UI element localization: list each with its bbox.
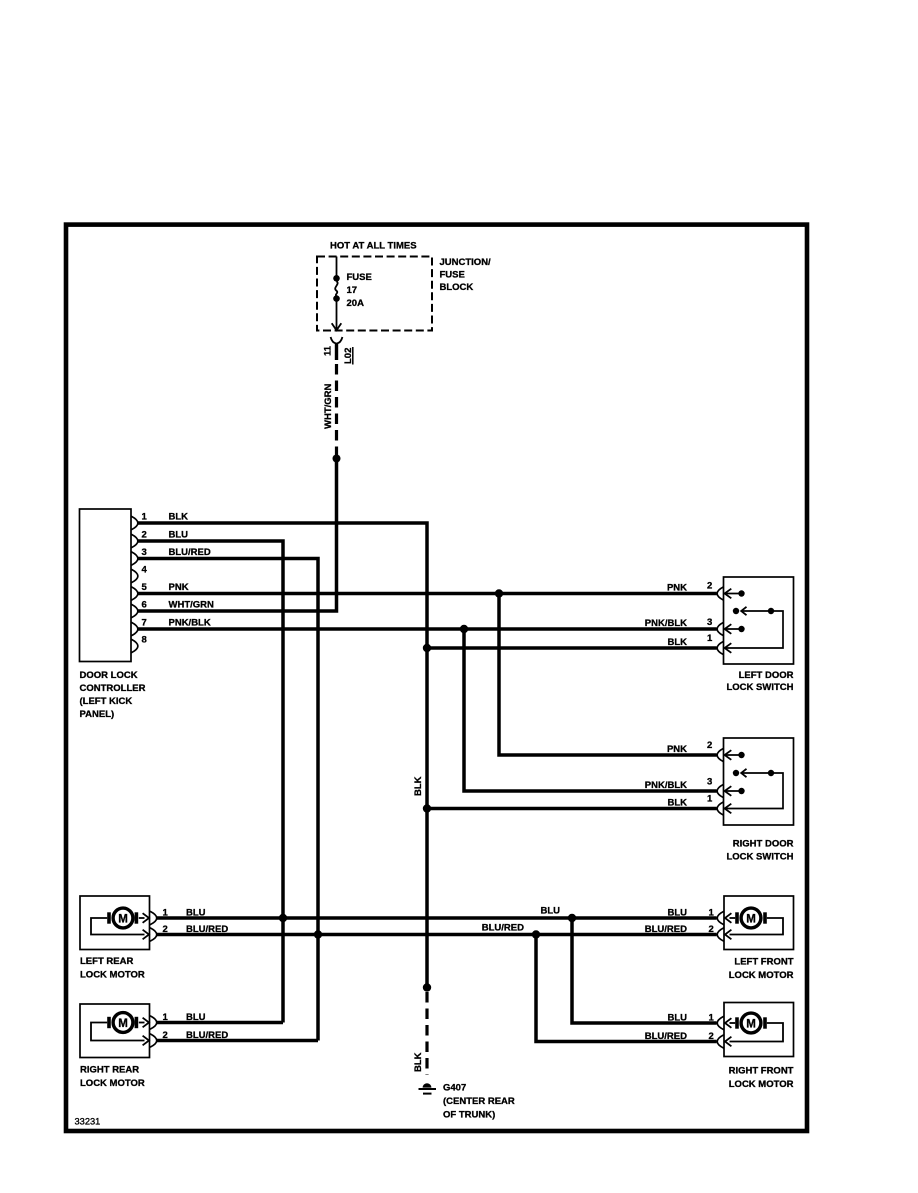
svg-text:1: 1: [709, 908, 715, 919]
junction dot BLU/RED front branch: [532, 930, 540, 938]
svg-text:4: 4: [142, 564, 148, 575]
svg-text:HOT AT ALL TIMES: HOT AT ALL TIMES: [330, 241, 417, 252]
svg-text:2: 2: [707, 740, 712, 751]
svg-text:RIGHT REAR: RIGHT REAR: [80, 1065, 139, 1076]
label G407 (CENTER REAR OF TRUNK): [443, 1083, 515, 1121]
S2 common path to pin 1: [725, 773, 783, 813]
svg-text:LOCK MOTOR: LOCK MOTOR: [80, 1078, 145, 1089]
wire PNK pin5: [137, 592, 717, 596]
svg-text:BLK: BLK: [413, 776, 424, 796]
wire BLU right rear motor pin1: [156, 1021, 283, 1025]
junction dot PNK branch: [495, 589, 503, 597]
svg-text:5: 5: [142, 582, 148, 593]
right rear lock motor M2: [80, 1004, 150, 1058]
svg-text:WHT/GRN: WHT/GRN: [169, 599, 215, 610]
svg-text:20A: 20A: [347, 298, 365, 309]
wire BLU/RED right rear motor pin2: [156, 1039, 318, 1043]
junction dot BLK to left door switch: [423, 644, 431, 652]
svg-text:BLU/RED: BLU/RED: [169, 547, 211, 558]
left rear lock motor M1: [80, 896, 150, 950]
svg-text:3: 3: [142, 547, 147, 558]
svg-text:CONTROLLER: CONTROLLER: [80, 683, 146, 694]
svg-text:2: 2: [142, 529, 147, 540]
wire PNK/BLK branch to right door switch: [464, 629, 717, 791]
junction dot BLK to right door switch: [423, 804, 431, 812]
svg-text:PNK/BLK: PNK/BLK: [645, 780, 687, 791]
svg-text:BLU: BLU: [667, 908, 687, 919]
label LEFT REAR LOCK MOTOR: [80, 956, 145, 981]
fuse F17 terminal dot top: [333, 275, 340, 282]
svg-text:BLU/RED: BLU/RED: [645, 924, 687, 935]
svg-text:LOCK MOTOR: LOCK MOTOR: [80, 970, 145, 981]
S2 pin 1 connector arc: [717, 802, 724, 816]
S1 pin 2 connector arc: [717, 587, 724, 601]
wire BLK dashed to ground: [425, 992, 428, 1075]
controller pin 3 connector arc: [131, 552, 138, 566]
svg-text:(CENTER REAR: (CENTER REAR: [443, 1096, 515, 1107]
svg-text:DOOR LOCK: DOOR LOCK: [80, 670, 138, 681]
svg-text:PNK: PNK: [667, 583, 687, 594]
svg-text:3: 3: [707, 777, 712, 788]
junction dot BLU front branch: [568, 914, 576, 922]
wire PNK branch to right door switch: [499, 594, 717, 756]
svg-text:2: 2: [163, 1030, 168, 1041]
svg-text:LOCK MOTOR: LOCK MOTOR: [729, 970, 794, 981]
svg-text:33231: 33231: [75, 1117, 101, 1127]
S1 common path to pin 1: [725, 611, 783, 653]
svg-text:BLU/RED: BLU/RED: [645, 1031, 687, 1042]
wire BLK to right door switch pin 1: [427, 807, 717, 811]
svg-text:PNK: PNK: [667, 744, 687, 755]
junction/fuse block dashed box: [317, 257, 432, 331]
svg-text:BLK: BLK: [413, 1052, 424, 1072]
door lock controller U1 box: [80, 509, 132, 662]
S1 pin 1 connector arc: [717, 641, 724, 655]
svg-text:PNK: PNK: [169, 582, 189, 593]
label LEFT DOOR LOCK SWITCH: [726, 670, 793, 693]
svg-text:BLOCK: BLOCK: [440, 282, 474, 293]
S2 pin 3 contact: [725, 786, 745, 796]
wire BLU pin2: [137, 541, 283, 1023]
junction dot PNK/BLK branch: [460, 625, 468, 633]
svg-text:M: M: [746, 914, 756, 926]
svg-text:2: 2: [709, 924, 714, 935]
controller pin 2 connector arc: [131, 534, 138, 548]
svg-text:2: 2: [163, 924, 168, 935]
wire BLU branch to right front motor: [572, 918, 717, 1023]
connector stem: [335, 343, 338, 360]
svg-text:BLU/RED: BLU/RED: [186, 924, 228, 935]
splice dot WHT/GRN: [333, 455, 341, 463]
S1 pin 3 contact: [725, 624, 745, 634]
svg-text:BLU: BLU: [540, 906, 560, 917]
wire fuse output with arrow: [332, 299, 342, 331]
svg-text:FUSE: FUSE: [347, 272, 372, 283]
svg-text:RIGHT FRONT: RIGHT FRONT: [729, 1066, 794, 1077]
svg-text:BLU: BLU: [186, 908, 206, 919]
controller pin 1 connector arc: [131, 516, 138, 530]
wire BLK pin1: [137, 523, 427, 988]
svg-text:OF TRUNK): OF TRUNK): [443, 1110, 495, 1121]
S2 wiper: [733, 769, 774, 777]
fuse F17 terminal dot bottom: [333, 295, 340, 302]
svg-text:FUSE: FUSE: [440, 270, 465, 281]
M1 pin 1 connector arc: [150, 911, 157, 925]
diagram frame: [66, 225, 807, 1131]
right front lock motor M4: [724, 1003, 794, 1057]
M2 pin 2 connector arc: [150, 1034, 157, 1048]
svg-text:PNK/BLK: PNK/BLK: [169, 617, 211, 628]
wire fuse feed: [336, 257, 338, 277]
svg-text:6: 6: [142, 599, 147, 610]
wire BLU/RED branch to right front motor: [536, 935, 717, 1042]
ground G407 symbol: [419, 1083, 437, 1093]
svg-text:M: M: [118, 914, 128, 926]
S2 pin 3 connector arc: [717, 784, 724, 798]
controller pin 5 connector arc: [131, 587, 138, 601]
svg-text:1: 1: [709, 1013, 715, 1024]
S2 pin 2 contact: [725, 750, 745, 760]
svg-text:(LEFT KICK: (LEFT KICK: [80, 696, 133, 707]
junction dot BLU at controller drop: [279, 914, 287, 922]
svg-text:BLK: BLK: [169, 511, 189, 522]
wire BLU/RED pin3: [137, 559, 318, 1041]
svg-text:JUNCTION/: JUNCTION/: [440, 257, 492, 268]
svg-text:1: 1: [707, 633, 713, 644]
svg-text:BLK: BLK: [667, 798, 687, 809]
svg-text:LEFT FRONT: LEFT FRONT: [734, 956, 793, 967]
controller pin 4 connector arc: [131, 569, 138, 583]
M4 pin 1 connector arc: [717, 1016, 724, 1030]
svg-text:WHT/GRN: WHT/GRN: [323, 383, 334, 429]
svg-text:LEFT REAR: LEFT REAR: [80, 956, 133, 967]
junction dot BLU/RED at controller drop: [314, 930, 322, 938]
connector name underline: [352, 347, 354, 365]
svg-text:BLU: BLU: [169, 529, 189, 540]
label RIGHT FRONT LOCK MOTOR: [729, 1066, 794, 1091]
wire BLU/RED rear-front bus: [156, 933, 717, 937]
svg-text:1: 1: [142, 511, 148, 522]
fuse F17 element: [335, 281, 337, 296]
svg-text:G407: G407: [443, 1083, 466, 1094]
wire WHT/GRN dashed: [335, 364, 338, 455]
svg-text:8: 8: [142, 634, 147, 645]
svg-text:BLU: BLU: [667, 1013, 687, 1024]
svg-text:2: 2: [707, 580, 712, 591]
splice dot BLK ground run: [423, 983, 431, 991]
svg-text:1: 1: [163, 1012, 169, 1023]
svg-text:RIGHT DOOR: RIGHT DOOR: [733, 839, 794, 850]
svg-text:7: 7: [142, 617, 147, 628]
label FUSE 17 20A: [347, 272, 372, 309]
svg-text:LOCK SWITCH: LOCK SWITCH: [726, 851, 793, 862]
svg-text:11: 11: [323, 345, 334, 356]
svg-text:1: 1: [707, 793, 713, 804]
M2 pin 1 connector arc: [150, 1016, 157, 1030]
right door lock switch S2 box: [724, 738, 794, 825]
svg-text:BLK: BLK: [667, 637, 687, 648]
M1 pin 2 connector arc: [150, 928, 157, 942]
svg-text:2: 2: [709, 1031, 714, 1042]
controller pin 7 connector arc: [131, 622, 138, 636]
M3 pin 2 connector arc: [717, 928, 724, 942]
svg-text:LOCK MOTOR: LOCK MOTOR: [729, 1079, 794, 1090]
svg-text:LOCK SWITCH: LOCK SWITCH: [726, 682, 793, 693]
label DOOR LOCK CONTROLLER (LEFT KICK PANEL): [80, 670, 146, 720]
svg-text:1: 1: [163, 908, 169, 919]
S2 pin 2 connector arc: [717, 748, 724, 762]
label JUNCTION/FUSE BLOCK: [440, 257, 492, 293]
controller pin 8 connector arc: [131, 639, 138, 653]
wire PNK/BLK pin7: [137, 627, 717, 631]
wire BLK to left door switch pin 1: [427, 646, 717, 650]
svg-text:BLU/RED: BLU/RED: [186, 1030, 228, 1041]
svg-text:PANEL): PANEL): [80, 709, 115, 720]
svg-text:BLU: BLU: [186, 1012, 206, 1023]
M3 pin 1 connector arc: [717, 911, 724, 925]
svg-text:BLU/RED: BLU/RED: [482, 923, 524, 934]
left front lock motor M3: [724, 896, 794, 950]
controller pin 6 connector arc: [131, 604, 138, 618]
wire BLU rear-front bus: [156, 916, 717, 920]
svg-text:M: M: [746, 1019, 756, 1031]
S1 wiper: [733, 607, 774, 615]
left door lock switch S1 box: [724, 577, 794, 664]
M4 pin 2 connector arc: [717, 1035, 724, 1049]
svg-text:LEFT DOOR: LEFT DOOR: [739, 670, 794, 681]
label LEFT FRONT LOCK MOTOR: [729, 956, 794, 981]
svg-text:PNK/BLK: PNK/BLK: [645, 618, 687, 629]
svg-text:M: M: [118, 1018, 128, 1030]
S1 pin 3 connector arc: [717, 622, 724, 636]
svg-text:17: 17: [347, 285, 358, 296]
S1 pin 2 contact: [725, 589, 745, 599]
connector C-L02 receptacle: [331, 337, 343, 344]
wire WHT/GRN to controller pin 6: [137, 459, 337, 612]
label RIGHT REAR LOCK MOTOR: [80, 1065, 145, 1090]
svg-text:3: 3: [707, 617, 712, 628]
label RIGHT DOOR LOCK SWITCH: [726, 839, 793, 863]
